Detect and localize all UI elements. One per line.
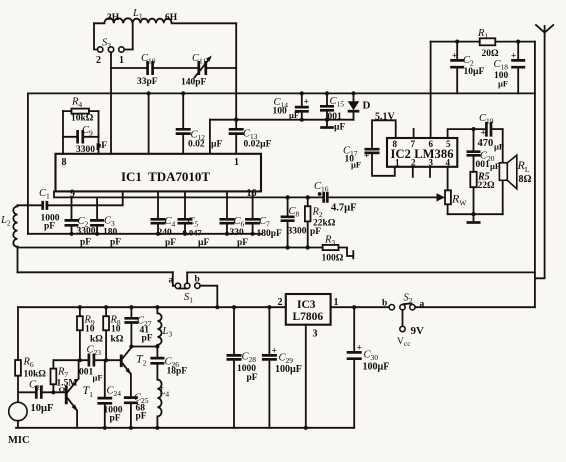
svg-text:C16: C16 (314, 181, 329, 194)
svg-text:8Ω: 8Ω (519, 174, 532, 185)
capacitor C30 (347, 305, 390, 428)
wire IC3 pin 3 to ground rail (305, 325, 307, 428)
svg-text:10kΩ: 10kΩ (24, 370, 47, 380)
wire collector node line with C23 (53, 359, 119, 361)
resistor R4 (63, 97, 99, 124)
svg-text:4.7µF: 4.7µF (331, 203, 357, 214)
node on bus (147, 91, 151, 95)
capacitor C26 (150, 347, 187, 380)
svg-text:L4: L4 (159, 386, 170, 399)
capacitor C27 (124, 305, 152, 349)
potentiometer RW (437, 167, 468, 214)
svg-text:7: 7 (411, 139, 416, 149)
svg-text:R1: R1 (477, 28, 488, 41)
zener diode D (348, 91, 371, 119)
svg-text:22kΩ: 22kΩ (313, 219, 336, 229)
capacitor C10 (137, 53, 197, 87)
svg-text:470: 470 (478, 138, 494, 149)
ground at amp output (467, 212, 481, 223)
wire S3 pole down to IC1 top (110, 52, 112, 154)
svg-text:D: D (363, 100, 371, 112)
wire L1 right end down through bus to node (235, 23, 237, 119)
svg-text:1: 1 (395, 158, 400, 168)
svg-text:6: 6 (429, 139, 434, 149)
svg-text:100µF: 100µF (275, 364, 302, 375)
svg-text:µF: µF (334, 123, 345, 133)
capacitor C15 (320, 91, 345, 132)
voltage regulator IC3 L7806 (278, 294, 339, 340)
svg-text:3: 3 (313, 329, 318, 340)
node pin3 on rail (304, 426, 308, 430)
svg-text:3H: 3H (107, 13, 120, 23)
svg-text:+: + (511, 52, 516, 62)
svg-text:T1: T1 (83, 383, 94, 399)
svg-text:0.047: 0.047 (183, 228, 203, 238)
svg-text:S2: S2 (404, 293, 413, 306)
svg-text:001: 001 (476, 160, 491, 170)
svg-text:pF: pF (110, 238, 121, 248)
svg-text:100Ω: 100Ω (322, 254, 344, 264)
svg-text:+: + (304, 98, 309, 108)
svg-text:5: 5 (446, 139, 451, 149)
inductor L1 (94, 8, 236, 23)
wire R4 left leg to IC1 pin 8 (62, 111, 64, 154)
svg-text:10: 10 (111, 325, 121, 335)
wire T2 collector node (131, 346, 157, 348)
svg-text:+: + (452, 52, 457, 62)
capacitor C5 (178, 191, 210, 248)
inductor L4 (155, 380, 169, 430)
svg-text:33pF: 33pF (137, 77, 158, 87)
svg-text:C1: C1 (39, 188, 50, 201)
svg-text:10: 10 (85, 325, 95, 335)
wire IC2 pin 3 stub (429, 167, 431, 177)
capacitor C6 (220, 191, 249, 248)
svg-text:1: 1 (119, 55, 124, 66)
svg-text:pF: pF (80, 238, 91, 248)
resistor R1 (477, 28, 499, 59)
svg-text:22Ω: 22Ω (478, 181, 496, 191)
wire line1 under IC1 (pin9 row to RW) (54, 191, 437, 197)
svg-text:3300: 3300 (288, 227, 307, 237)
switch S3 (96, 38, 124, 67)
wire L2 bottom to bus B and down to bus C (17, 247, 19, 273)
svg-text:2: 2 (278, 297, 283, 308)
wire IC2 pin 5 to C19 line (448, 129, 485, 138)
svg-text:6H: 6H (165, 13, 178, 23)
svg-text:C8: C8 (289, 206, 300, 219)
wire C19 right down to speaker and bottom (502, 129, 504, 214)
svg-text:R4: R4 (71, 97, 82, 110)
capacitor C24 (97, 360, 122, 430)
resistor R7 (51, 360, 78, 395)
speaker RL (499, 155, 531, 189)
svg-text:b: b (195, 275, 200, 285)
svg-text:µF: µF (198, 238, 209, 248)
capacitor C9 (63, 125, 107, 155)
op-amp IC2 LM386 box (387, 138, 457, 168)
svg-text:C7: C7 (259, 216, 270, 229)
wire bus C left segment (18, 271, 173, 273)
capacitor C19 (478, 113, 505, 152)
svg-text:+: + (272, 347, 277, 357)
capacitor C13 (229, 120, 272, 154)
svg-text:C6: C6 (234, 216, 245, 229)
svg-text:C22: C22 (29, 380, 44, 393)
capacitor C4 (151, 191, 177, 248)
wire main top bus (28, 92, 535, 94)
resistor R5 (470, 172, 495, 215)
svg-text:18pF: 18pF (167, 367, 188, 377)
wire left edge vertical bus to bus A (27, 93, 29, 233)
svg-text:C19: C19 (479, 113, 494, 126)
svg-text:pF: pF (136, 412, 147, 422)
transistor T1 (65, 360, 93, 428)
switch S2 (382, 293, 425, 310)
svg-text:10µF: 10µF (31, 403, 54, 414)
svg-text:001: 001 (328, 112, 343, 122)
svg-text:10µF: 10µF (464, 67, 485, 77)
wire IC2 pin 2 stub (412, 167, 414, 177)
antenna (535, 25, 553, 278)
svg-text:180: 180 (103, 228, 118, 238)
wire C10 C11 line (111, 67, 146, 69)
svg-text:100: 100 (273, 107, 288, 117)
capacitor C28 (227, 305, 258, 428)
svg-text:pF: pF (310, 227, 321, 237)
svg-text:20Ω: 20Ω (482, 49, 500, 59)
wire riser bus to IC1 top (148, 93, 150, 153)
svg-text:10kΩ: 10kΩ (71, 114, 94, 124)
microphone MIC (8, 402, 30, 446)
svg-text:C23: C23 (87, 345, 102, 358)
svg-text:+: + (364, 152, 369, 162)
svg-text:IC3: IC3 (297, 299, 316, 311)
resistor R3 (322, 235, 354, 264)
svg-text:Vcc: Vcc (397, 337, 411, 348)
svg-text:L1: L1 (132, 8, 143, 21)
svg-text:S3: S3 (102, 38, 111, 51)
svg-text:a: a (169, 276, 174, 286)
svg-text:µF: µF (490, 161, 500, 171)
svg-text:8: 8 (393, 139, 398, 149)
svg-text:9V: 9V (411, 325, 425, 337)
svg-text:C4: C4 (165, 216, 176, 229)
svg-text:8: 8 (62, 157, 67, 168)
svg-text:L2: L2 (0, 215, 11, 228)
svg-text:2: 2 (96, 55, 101, 66)
wire L1 tap down to S3 contact 1 (124, 23, 133, 49)
capacitor C12 (176, 91, 223, 154)
svg-text:C30: C30 (364, 350, 379, 363)
capacitor C29 (262, 305, 302, 428)
wire right side vertical from R1 rail to S2 wire (534, 42, 536, 308)
capacitor C14 (273, 91, 309, 121)
capacitor C20 (467, 127, 501, 172)
node S1 drop on rail (215, 305, 219, 309)
node 5.1V bracket (372, 112, 396, 149)
svg-text:+: + (481, 129, 486, 139)
capacitor C3 (90, 197, 121, 247)
svg-text:IC1 TDA7010T: IC1 TDA7010T (121, 169, 210, 184)
svg-text:R6: R6 (23, 357, 34, 370)
svg-text:pF: pF (110, 414, 121, 424)
svg-text:R2: R2 (312, 207, 323, 220)
resistor R2 (305, 195, 336, 250)
svg-text:RL: RL (517, 158, 530, 174)
node C13 top (234, 118, 238, 122)
wire IC2 pin 6 riser to bus and R1 rail (430, 42, 432, 138)
svg-text:L7806: L7806 (293, 311, 324, 323)
svg-text:MIC: MIC (8, 435, 30, 446)
svg-text:kΩ: kΩ (111, 335, 124, 345)
capacitor C23 (79, 345, 103, 383)
svg-text:Ω: Ω (59, 385, 66, 395)
capacitor C25 (124, 393, 149, 430)
svg-text:C9: C9 (82, 125, 93, 138)
svg-text:5.1V: 5.1V (375, 112, 396, 123)
svg-text:pF: pF (237, 238, 248, 248)
wire bus B (18, 247, 323, 249)
capacitor C17 (343, 146, 395, 176)
wire bus A (28, 233, 262, 235)
transistor T2 (120, 348, 147, 397)
wire IC3 pin 1 output to S2 (331, 306, 390, 308)
resistor R6 (15, 307, 46, 402)
svg-text:b: b (382, 299, 387, 309)
wire S2 a contact to right edge (415, 306, 535, 308)
svg-text:C11: C11 (192, 53, 206, 66)
svg-text:S1: S1 (184, 292, 193, 305)
svg-text:L3: L3 (162, 326, 173, 339)
svg-text:0.02: 0.02 (188, 140, 205, 150)
svg-text:µF: µF (498, 79, 508, 89)
wire S1 b contact to VCC rail (200, 286, 217, 308)
svg-text:µF: µF (351, 160, 361, 170)
capacitor C2 (3300pF) (65, 197, 96, 247)
svg-text:IC2 LM386: IC2 LM386 (391, 147, 454, 161)
svg-text:100µF: 100µF (363, 362, 390, 373)
svg-text:C15: C15 (330, 96, 345, 109)
inductor L2 (0, 205, 18, 247)
svg-text:pF: pF (247, 373, 258, 383)
svg-text:R7: R7 (57, 367, 68, 380)
svg-text:pF: pF (142, 334, 153, 344)
svg-text:C10: C10 (141, 53, 156, 66)
wire rail left riser to IC1 top (209, 120, 211, 153)
capacitor C8 (281, 195, 322, 250)
svg-text:140pF: 140pF (181, 78, 207, 88)
wire VCC rail bottom section (18, 306, 286, 308)
wire mid ground rail (210, 119, 354, 121)
wire L1 left end down to S3 contact 2 (94, 23, 97, 49)
svg-text:T2: T2 (136, 352, 147, 368)
switch S1 (169, 272, 201, 304)
resistor R8 (103, 305, 124, 362)
wire bottom ground rail (16, 427, 354, 429)
svg-text:3300: 3300 (77, 227, 96, 237)
svg-text:C28: C28 (242, 352, 257, 365)
svg-text:0.02µF: 0.02µF (244, 140, 272, 150)
wire IC2 pin 7 stub (413, 129, 415, 138)
svg-text:pF: pF (96, 141, 107, 151)
inductor L3 (155, 305, 172, 349)
wire R1 network top rail (431, 41, 535, 43)
capacitor C22 (18, 380, 65, 415)
svg-text:R3: R3 (324, 235, 335, 248)
svg-text:C18: C18 (494, 59, 509, 72)
svg-text:+: + (357, 344, 362, 354)
svg-text:1: 1 (234, 157, 239, 168)
variable capacitor C11 (181, 53, 236, 88)
capacitor C1 (18, 188, 123, 232)
ground at C15 node (320, 118, 334, 128)
wire speaker bottom rail (448, 213, 503, 215)
capacitor C2 (10uF) (450, 40, 484, 94)
resistor R9 (77, 305, 103, 362)
svg-text:C2: C2 (463, 55, 474, 68)
svg-text:RW: RW (451, 192, 467, 208)
op-amp IC1 TDA7010T box (56, 154, 262, 200)
svg-text:µF: µF (289, 110, 299, 120)
capacitor C16 (314, 181, 357, 214)
svg-text:C24: C24 (107, 386, 122, 399)
svg-text:pF: pF (165, 238, 176, 248)
wire bus C right segment (187, 271, 535, 273)
capacitor C18 (494, 40, 526, 94)
svg-text:kΩ: kΩ (90, 335, 103, 345)
svg-text:pF: pF (44, 222, 55, 232)
wire R4 right leg to IC1 top (98, 111, 100, 154)
svg-text:001: 001 (79, 368, 94, 378)
capacitor C7 (245, 191, 282, 239)
svg-text:µF: µF (93, 373, 103, 383)
battery 9V terminal (397, 310, 424, 348)
svg-text:C3: C3 (104, 216, 115, 229)
svg-text:µF: µF (211, 140, 222, 150)
